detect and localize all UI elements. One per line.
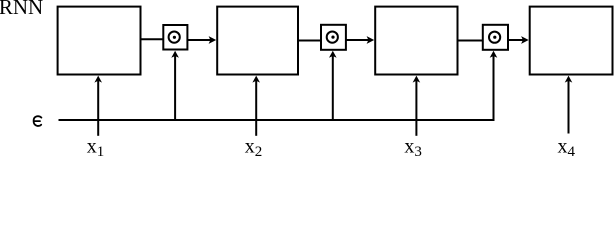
RNN cell box 3 [375,7,457,75]
arrowhead epsilon into operator3 [490,51,498,58]
arrowhead into box2 [252,76,260,83]
RNN cell box 1 [58,7,141,75]
epsilon label [34,116,42,126]
input wire x4 to box4 [568,80,570,134]
wire box3 to operator3 [458,40,483,42]
arrowhead into operator2 [329,51,337,58]
epsilon noise bus wire [59,54,494,120]
elementwise product operator square 1 [163,25,187,50]
arrow operator1 to box2 [187,36,216,44]
arrowhead into operator1 [171,51,179,58]
wire box2 to operator2 [298,40,321,42]
RNN cell box 4 [530,7,613,75]
elementwise product operator square 3 [483,25,508,50]
input wire x3 to box3 [415,80,417,136]
arrowhead into box4 [565,76,573,83]
input wire x1 to box1 [97,80,99,136]
arrow operator3 to box4 [508,36,529,44]
svg-text:RNN: RNN [0,0,43,19]
elementwise product operator square 2 [321,25,346,50]
RNN cell box 2 [217,7,298,75]
input wire x2 to box2 [255,80,257,136]
wire box1 to operator1 [141,38,164,40]
arrow operator2 to box3 [346,36,374,44]
branch wire epsilon to operator2 [332,54,334,120]
branch wire epsilon to operator1 [174,54,176,120]
arrowhead into box3 [413,76,421,83]
arrowhead into box1 [94,76,102,83]
